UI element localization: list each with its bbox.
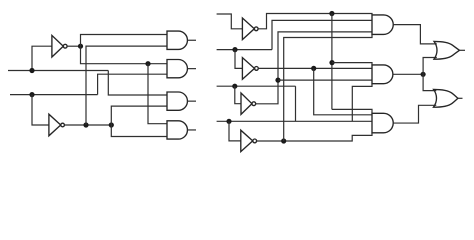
node A2 output dot <box>421 72 426 77</box>
node I2 junction dot <box>232 47 237 52</box>
wire U4 output to AND A2 middle input <box>258 67 372 69</box>
wire U1 output to node A' <box>67 45 80 47</box>
wire G4 output <box>188 129 197 131</box>
wire input I1 to inverter U3 <box>217 14 243 29</box>
node I1' dot at AND A2 branch <box>329 60 334 65</box>
node A' junction dot <box>78 44 83 49</box>
wire A' down to gate G2 top input <box>81 46 168 64</box>
wire A2 out up to OR O1 bottom input <box>423 58 437 75</box>
wire I2' branch down to AND A3 second top input <box>314 68 372 114</box>
wire U6 output to AND A3 bottom corner <box>257 133 372 141</box>
node B' junction dot 2 <box>109 122 114 127</box>
wire A2 out down to OR O2 top input <box>423 74 436 90</box>
wire I4 up to AND A2 bottom corner input <box>352 84 372 122</box>
node I3 junction dot <box>232 84 237 89</box>
wire input A horizontal <box>8 70 108 72</box>
wire B' down to gate G4 bottom input <box>111 125 167 137</box>
wire input A down-right to gate G3 top <box>108 71 167 96</box>
wire G2 output <box>188 68 197 70</box>
node B junction dot <box>29 92 34 97</box>
wire I4' up to AND A1 bottom corner input <box>284 34 372 141</box>
wire I3 down to I4 line <box>295 86 297 121</box>
node I1' dot on top line <box>329 11 334 16</box>
wire I3 branch down to inverter U5 <box>235 86 241 104</box>
wire B' up to gate G3 bottom input <box>111 106 167 125</box>
inverter U1 <box>52 35 67 57</box>
inverter U5 <box>241 93 256 114</box>
and-gate A1 (3-input) <box>372 15 393 35</box>
wire I2 branch down to inverter U4 <box>235 50 242 69</box>
wire G3 output <box>188 100 197 102</box>
wire I4 branch down to inverter U6 <box>229 121 241 141</box>
wire input I4 to AND A3 middle input <box>217 120 372 122</box>
wire A' up to gate G1 top input <box>81 35 168 47</box>
wire U3 output up and right to AND A1 top input <box>258 14 372 29</box>
and-gate A3 (3-input) <box>372 113 393 133</box>
node A' branch dot on G2 top line <box>145 61 150 66</box>
wire A3 output to OR O2 bottom input <box>393 105 436 123</box>
wire input B horizontal <box>10 94 98 96</box>
node I4 junction dot <box>226 119 231 124</box>
node B' junction dot 1 <box>83 122 88 127</box>
wire O1 output <box>460 49 466 51</box>
or-gate O2 <box>434 89 459 107</box>
or-gate O1 <box>434 41 460 59</box>
node I2' dot <box>311 66 316 71</box>
wire O2 output <box>458 97 463 99</box>
wire A2 output <box>393 73 423 75</box>
and-gate A2 (3-input) <box>372 65 393 84</box>
and-gate G4 <box>167 121 187 139</box>
wire input B branch down to inverter U2 <box>32 95 49 125</box>
wire I1' to AND A3 top corner input <box>332 109 372 113</box>
wire I1' vertical branch down <box>331 14 333 110</box>
wire U5 output right then up to AND A1 third input <box>256 32 372 104</box>
wire G1 output <box>188 39 197 41</box>
and-gate G3 <box>167 92 187 110</box>
wire I3' to AND A2 bottom input <box>278 79 372 81</box>
wire input B up-right to gate G2 bottom <box>98 74 167 94</box>
wire U2 output B' <box>64 124 111 126</box>
inverter U2 <box>49 114 65 136</box>
wire A1 output to OR O1 top <box>393 25 437 44</box>
wire I1' to AND A2 top input <box>332 63 372 65</box>
node I3' dot <box>275 78 280 83</box>
wire A' branch down to gate G4 top input <box>148 64 167 124</box>
wire input I2 horizontal <box>217 49 272 51</box>
wire B' up to gate G1 bottom input <box>86 46 167 125</box>
inverter U6 <box>241 130 257 151</box>
and-gate G2 <box>167 60 187 78</box>
node A junction dot <box>29 68 34 73</box>
inverter U4 <box>242 58 258 80</box>
node I4' dot <box>281 138 286 143</box>
wire input I3 horizontal <box>217 85 296 87</box>
and-gate G1 <box>167 31 187 49</box>
wire input A branch up to inverter U1 <box>32 46 52 70</box>
inverter U3 <box>242 18 258 40</box>
wire I2 up to AND A1 middle input <box>272 20 372 49</box>
